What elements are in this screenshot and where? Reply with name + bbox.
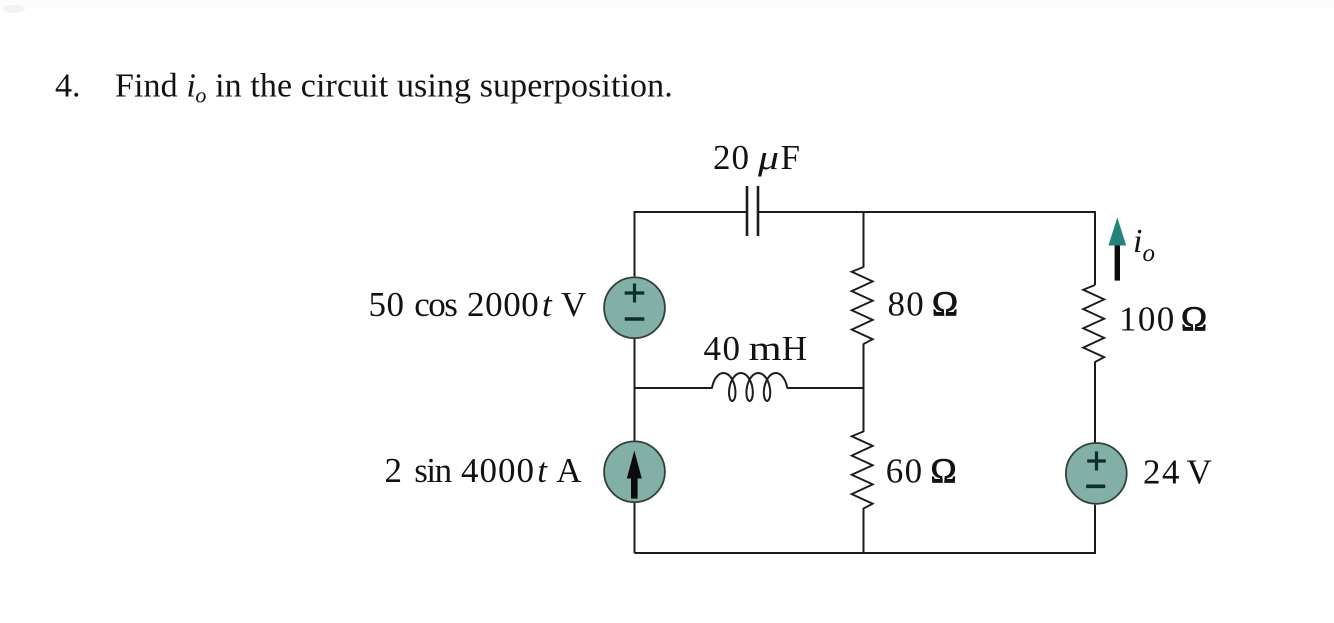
wire middle horizontal left of inductor xyxy=(635,387,713,389)
svg-text:60Ω: 60Ω xyxy=(886,452,957,491)
resistor R2 60 ohm zigzag xyxy=(852,432,873,509)
V2 minus sign xyxy=(1086,484,1105,488)
svg-text:100Ω: 100Ω xyxy=(1119,300,1207,339)
wire middle vertical top xyxy=(863,212,865,268)
resistor R3 100 ohm zigzag xyxy=(1083,285,1104,362)
wire middle vertical bottom xyxy=(863,508,865,553)
capacitor C1 20uF plates xyxy=(747,186,758,236)
svg-text:io: io xyxy=(1133,223,1155,267)
wire bottom xyxy=(635,505,1096,553)
resistor R1 80 ohm zigzag xyxy=(852,267,873,344)
voltage source V1 50cos2000t circle xyxy=(604,277,665,338)
svg-text:20μF: 20μF xyxy=(713,138,800,177)
scan shading top band xyxy=(0,0,1334,8)
svg-text:80Ω: 80Ω xyxy=(888,285,959,324)
wire right vertical between resistor and source xyxy=(1094,362,1096,443)
current io arrow xyxy=(1108,218,1126,281)
V1 minus sign xyxy=(625,317,645,321)
svg-text:40mH: 40mH xyxy=(704,329,807,368)
svg-text:4.: 4. xyxy=(55,68,81,105)
svg-text:2sin4000tA: 2sin4000tA xyxy=(385,451,583,490)
scan smudge top left xyxy=(3,5,25,13)
voltage source V2 24V circle xyxy=(1066,443,1127,504)
svg-text:Find io in the circuit using s: Find io in the circuit using superpositi… xyxy=(115,68,673,108)
current source I1 2sin4000t circle xyxy=(604,441,665,502)
V2 plus sign xyxy=(1087,452,1106,471)
wire top right segment xyxy=(758,212,1095,285)
wire middle horizontal right of inductor xyxy=(787,387,864,389)
I1 arrow xyxy=(627,451,642,499)
inductor L1 40mH coil xyxy=(712,373,787,401)
wire middle vertical center xyxy=(863,344,865,433)
svg-text:50cos2000tV: 50cos2000tV xyxy=(369,285,587,324)
wire left vertical below current source xyxy=(634,503,636,553)
V1 plus sign xyxy=(625,284,645,303)
wire left vertical between sources xyxy=(634,339,636,441)
svg-text:24V: 24V xyxy=(1143,452,1212,491)
wire top left segment xyxy=(635,212,748,277)
